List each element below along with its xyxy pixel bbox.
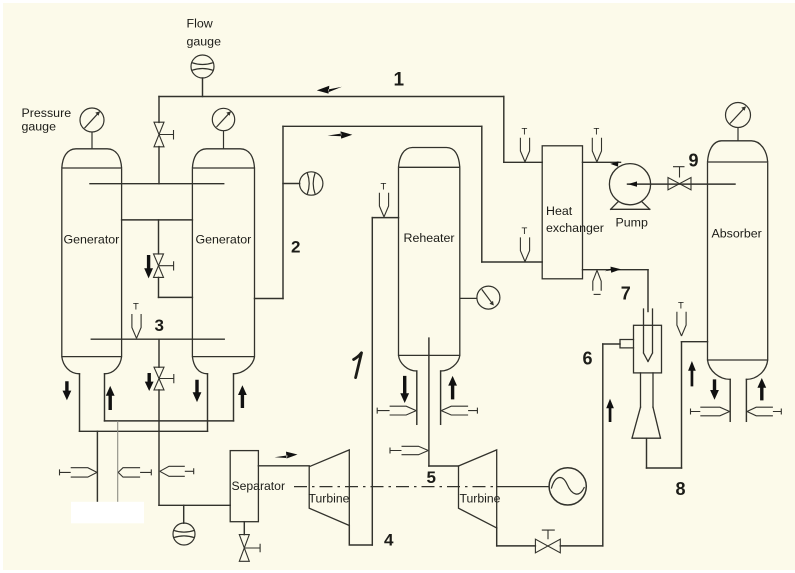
thermowell right of centre pipe bbox=[160, 466, 194, 476]
white patch bbox=[71, 502, 144, 524]
svg-text:Generator: Generator bbox=[64, 232, 120, 246]
pump P1 stand bbox=[611, 201, 650, 209]
wire cross line lower through generators bbox=[91, 338, 224, 340]
vessel Absorber bbox=[708, 141, 768, 380]
wire pipe 1 downcomer bbox=[503, 97, 505, 163]
ball gauge near generator 2 bbox=[300, 172, 323, 195]
svg-text:2: 2 bbox=[291, 238, 300, 257]
svg-text:gauge: gauge bbox=[187, 35, 222, 49]
T sensor heat exchanger top-right bbox=[592, 127, 601, 162]
valve V4 below separator bbox=[239, 535, 260, 562]
svg-text:T: T bbox=[133, 302, 139, 313]
ball gauge bottom left bbox=[173, 523, 195, 545]
vessel Generator 1 bbox=[62, 149, 122, 374]
valve V5 bottom horizontal bbox=[535, 530, 560, 553]
wire bottom run to separator bbox=[159, 504, 230, 506]
inverted T sensor on line 7 bbox=[593, 270, 601, 294]
wire ejector outlet bottom run bbox=[647, 467, 682, 469]
wire reheater side inlet bbox=[372, 217, 398, 219]
wire cross line upper through generators bbox=[90, 183, 224, 185]
wire flow-gauge stem bbox=[202, 78, 204, 97]
pressure gauge PG2 bbox=[212, 108, 234, 149]
flow gauge ball bbox=[191, 55, 214, 78]
ejector diffuser cone bbox=[632, 407, 661, 438]
svg-text:6: 6 bbox=[583, 349, 593, 369]
flow arrow up on ejector riser bbox=[606, 399, 614, 422]
valve V2 bbox=[154, 254, 174, 278]
label 1 tall beside duct bbox=[354, 353, 362, 378]
wire riser to valve V1 bbox=[158, 97, 160, 123]
ejector body bbox=[634, 325, 662, 373]
thermowell on turbine2 inlet pipe bbox=[390, 446, 428, 454]
wire pipe 2 riser bbox=[282, 126, 284, 298]
thermowell absorber outlet right bbox=[747, 407, 781, 416]
flow arrow up generator1 right bbox=[106, 386, 115, 410]
wire centre pipe to valve V3 bbox=[158, 339, 160, 367]
svg-text:Absorber: Absorber bbox=[712, 227, 762, 241]
heat exchanger U1 bbox=[542, 146, 582, 279]
wire absorber neck left bbox=[729, 379, 731, 421]
svg-text:8: 8 bbox=[676, 479, 686, 499]
wire collector upper bbox=[105, 420, 234, 422]
wire line 8 into absorber bbox=[682, 341, 708, 343]
flow arrow up reheater right bbox=[448, 376, 457, 400]
T sensor on line 8 bbox=[677, 301, 686, 337]
svg-text:9: 9 bbox=[689, 151, 699, 171]
svg-text:Pressure: Pressure bbox=[22, 106, 72, 120]
electric generator G bbox=[549, 468, 586, 505]
wire pipe 1 into heat exchanger bbox=[504, 161, 542, 163]
turbine 1 bbox=[309, 450, 349, 526]
wire stub to bottom ball gauge bbox=[183, 505, 185, 523]
flow arrow up on line 8 bbox=[688, 361, 696, 386]
svg-text:exchanger: exchanger bbox=[546, 221, 604, 235]
svg-text:Pump: Pump bbox=[616, 216, 648, 230]
wire stub to ball gauge bbox=[283, 183, 300, 185]
svg-text:Heat: Heat bbox=[546, 204, 573, 218]
wire pipe 2 top run bbox=[283, 125, 482, 127]
wire valve V1 to cross line bbox=[158, 147, 160, 184]
arrow on pump discharge bbox=[610, 161, 618, 166]
shaft centreline dash-dot bbox=[294, 486, 497, 488]
svg-text:5: 5 bbox=[427, 468, 436, 487]
flow arrow separator to turbine bbox=[275, 452, 298, 459]
wire turbine2 exhaust to valve V5 bbox=[497, 545, 536, 547]
electric generator sine wave bbox=[552, 478, 585, 495]
wire generator2 right outlet bbox=[255, 298, 284, 300]
ejector diffuser neck bbox=[641, 373, 654, 407]
svg-text:T: T bbox=[522, 226, 528, 237]
svg-text:Turbine: Turbine bbox=[460, 492, 501, 506]
wire turbine1 exhaust duct bbox=[349, 526, 372, 546]
thermowell reheater outlet right bbox=[441, 406, 477, 415]
svg-text:Generator: Generator bbox=[196, 232, 252, 246]
svg-text:T: T bbox=[522, 127, 528, 138]
separator vessel bbox=[230, 451, 258, 522]
T sensor heat exchanger bottom-left bbox=[520, 226, 529, 261]
wire collector lower bbox=[80, 430, 208, 432]
svg-text:Turbine: Turbine bbox=[309, 492, 350, 506]
wire drain pipe dark bbox=[96, 431, 98, 503]
wire line 8 riser bbox=[681, 342, 683, 468]
wire pipe 1 top run bbox=[159, 96, 504, 98]
flow arrow on line 7 bbox=[605, 267, 621, 273]
wire pipe 2 into heat exchanger bbox=[482, 261, 542, 263]
wire loop down to valve V2 bbox=[158, 220, 160, 254]
pressure gauge PG1 bbox=[80, 108, 104, 149]
flow arrow down generator2 left bbox=[193, 380, 202, 402]
wire heat exchanger outlet line 7 bbox=[583, 269, 649, 271]
wire turbine2 inlet bbox=[429, 465, 459, 467]
arrow into pump centre bbox=[628, 181, 637, 186]
wire separator bottom stub bbox=[243, 522, 245, 535]
valve V1 bbox=[154, 122, 174, 147]
shaft turbine2 to generator bbox=[497, 486, 549, 488]
T sensor heat exchanger top-left bbox=[520, 127, 529, 162]
wire reheater neck right bbox=[440, 371, 442, 424]
thermowell absorber outlet left bbox=[691, 407, 730, 416]
wire ejector outlet down bbox=[646, 438, 648, 468]
wire loop bottom into generator2 bbox=[159, 296, 193, 298]
turbine 2 bbox=[459, 450, 497, 528]
wire ejector suction riser bbox=[602, 344, 604, 546]
wire absorber neck right bbox=[745, 379, 747, 421]
flow arrow down generator1 left bbox=[63, 381, 72, 400]
wire valve V3 down to bottom run bbox=[158, 390, 160, 505]
wire down to ejector nozzle bbox=[647, 270, 649, 312]
wire separator to turbine1 bbox=[258, 465, 309, 467]
svg-text:gauge: gauge bbox=[22, 120, 57, 134]
svg-text:4: 4 bbox=[384, 531, 394, 550]
wire drain pipe grey bbox=[117, 421, 119, 503]
wire generator1 inner neck bbox=[104, 374, 106, 421]
flow arrow pipe2 right bbox=[328, 131, 353, 138]
wire turbine2 exhaust down bbox=[496, 528, 498, 546]
wire generator2 inner neck bbox=[207, 374, 209, 432]
pump P1 body bbox=[609, 164, 650, 205]
T sensor reheater inlet bbox=[379, 182, 388, 217]
wire ejector side inlet line bbox=[603, 343, 620, 345]
wire pipe 2 downcomer bbox=[481, 126, 483, 262]
wire generator2 outer neck bbox=[233, 374, 235, 421]
vessel Reheater bbox=[399, 148, 460, 372]
thermowell reheater outlet left bbox=[377, 406, 416, 415]
svg-text:T: T bbox=[678, 301, 684, 312]
svg-text:Separator: Separator bbox=[232, 479, 286, 493]
wire reheater centre pipe bbox=[428, 338, 430, 466]
svg-text:1: 1 bbox=[394, 70, 405, 91]
thermowell right of generator drain 2 bbox=[118, 468, 151, 477]
wire valve V2 to loop bottom bbox=[158, 277, 160, 297]
T sensor on lower cross line bbox=[132, 302, 141, 339]
wire pump suction from absorber bbox=[628, 183, 736, 185]
wire generator link line bbox=[122, 219, 193, 221]
flow arrow down valve V2 side bbox=[144, 255, 153, 278]
vessel Generator 2 bbox=[192, 149, 254, 374]
flow arrow up absorber right bbox=[757, 378, 766, 400]
flow arrow down valve V3 side bbox=[145, 373, 154, 391]
wire reheater side pipe tall bbox=[371, 218, 373, 545]
wire generator1 outer neck bbox=[79, 374, 81, 432]
svg-text:7: 7 bbox=[621, 284, 631, 304]
thermowell left of generator drain 1 bbox=[60, 468, 98, 477]
flow arrow down absorber left bbox=[710, 379, 719, 399]
svg-text:3: 3 bbox=[155, 316, 164, 335]
ejector side inlet stub bbox=[620, 340, 634, 348]
gauge on reheater side bbox=[460, 286, 500, 309]
svg-text:Flow: Flow bbox=[187, 17, 213, 31]
pressure gauge on absorber bbox=[726, 103, 751, 141]
flow arrow down reheater left bbox=[400, 376, 409, 403]
svg-text:T: T bbox=[594, 127, 600, 138]
wire pump discharge to heat exchanger bbox=[583, 161, 621, 163]
ejector nozzle tube bbox=[644, 309, 653, 362]
flow arrow pipe1 left bbox=[317, 86, 342, 94]
svg-text:Reheater: Reheater bbox=[404, 231, 455, 245]
wire reheater neck left bbox=[416, 371, 418, 424]
flow arrow up generator2 right bbox=[238, 385, 247, 408]
wire valve V5 to riser bbox=[560, 545, 603, 547]
valve V9 absorber line bbox=[668, 167, 691, 190]
svg-text:T: T bbox=[381, 182, 387, 193]
valve V3 bbox=[154, 367, 174, 390]
